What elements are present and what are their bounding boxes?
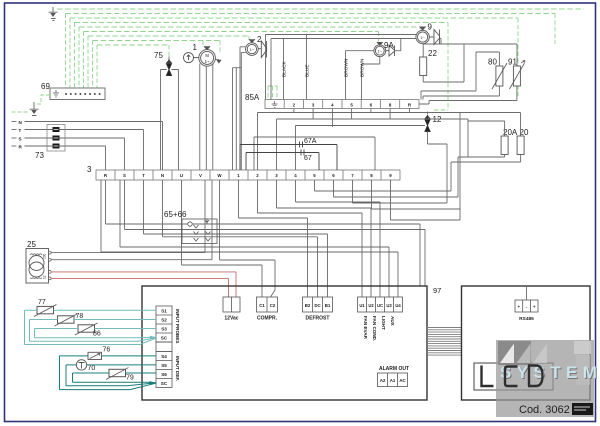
wire switch76 left loop	[60, 356, 157, 390]
resistor 20A	[501, 136, 508, 155]
wire thermostat70 left loop	[66, 365, 154, 386]
wire fan2 left lead	[240, 47, 246, 170]
green link bar69 to ground G2	[36, 95, 50, 104]
svg-text:B1: B1	[325, 303, 331, 308]
thermostat 70	[76, 360, 86, 370]
wire U to C1	[182, 180, 263, 297]
wire fan9 prop to resistor 22 bus	[423, 38, 517, 44]
evaporator fan 2	[246, 39, 267, 57]
wire cell8 to right riser	[372, 180, 461, 209]
svg-text:A2: A2	[380, 378, 386, 383]
wire valve75 left lead	[161, 70, 167, 171]
probe 91	[510, 61, 526, 90]
svg-text:S1: S1	[161, 309, 167, 314]
ground stub motor 1	[215, 60, 221, 64]
condenser fan 9	[416, 27, 440, 45]
svg-text:77: 77	[38, 299, 46, 306]
svg-text:N: N	[19, 120, 23, 125]
svg-text:INPUT DEF.: INPUT DEF.	[175, 356, 180, 381]
svg-text:78: 78	[76, 313, 84, 320]
fuse 67A	[240, 142, 337, 171]
wire motor1 phase leads	[200, 64, 213, 171]
wire probe79 left loop	[73, 373, 157, 383]
svg-text:A1: A1	[390, 378, 396, 383]
terminal RS485	[515, 300, 538, 312]
terminal 12Vac	[223, 297, 240, 312]
wire 2 to U1	[258, 180, 363, 297]
svg-text:20A: 20A	[503, 128, 518, 137]
probe 79	[106, 368, 129, 380]
svg-text:SC: SC	[161, 381, 168, 386]
svg-text:73: 73	[35, 151, 44, 160]
svg-text:RS485: RS485	[519, 316, 534, 322]
svg-text:-: -	[526, 305, 528, 311]
resistor 20	[517, 136, 524, 155]
wire probe78 left loop	[30, 320, 157, 342]
svg-text:1~: 1~	[250, 47, 255, 52]
wire fan9 left lead into h35	[266, 35, 417, 100]
terminal strip 3	[96, 170, 400, 180]
wire RS485 stub	[526, 286, 528, 300]
wire 20 bottom	[451, 155, 521, 163]
wire BLACK drop	[283, 39, 285, 100]
wire probe86 to S3	[95, 328, 157, 330]
watermark overlay	[482, 340, 600, 417]
solenoid valve 75	[166, 57, 172, 76]
wire 91 bottom	[419, 86, 517, 104]
svg-text:S4: S4	[161, 354, 167, 359]
wire 4 to UC	[296, 180, 381, 297]
wire probe86 left loop	[35, 329, 157, 338]
svg-text:BLUE: BLUE	[305, 64, 311, 77]
terminal DEFROST B2 DC B1	[303, 297, 333, 312]
mains wire R	[12, 146, 106, 170]
green ground net: staircase horizontals	[57, 9, 584, 45]
solenoid valve 12	[425, 112, 431, 132]
svg-text:22: 22	[428, 49, 437, 58]
svg-text:SC: SC	[161, 336, 168, 341]
svg-text:97: 97	[433, 286, 441, 295]
wire loop 80 top	[421, 52, 499, 100]
svg-text:T: T	[142, 173, 145, 178]
fuse box 73	[47, 125, 65, 152]
svg-text:12Vac: 12Vac	[224, 316, 238, 322]
wire cell9 to right riser	[391, 180, 461, 220]
wire valve12 bottom path	[353, 132, 448, 204]
svg-text:AC: AC	[399, 378, 406, 383]
svg-text:67: 67	[304, 155, 312, 162]
wire bus h119	[277, 109, 469, 171]
svg-text:3: 3	[87, 165, 92, 174]
wire cell6 to 20 loop	[334, 157, 459, 197]
svg-text:1~: 1~	[204, 59, 210, 64]
svg-text:S3: S3	[161, 327, 167, 332]
display unit box	[462, 286, 591, 400]
wire thermostat70 to S5	[87, 364, 156, 366]
svg-text:Cod. 3062: Cod. 3062	[519, 404, 570, 416]
wire fan9A prop stub	[395, 39, 401, 51]
ground symbol G1 top-left	[49, 7, 58, 21]
wire probe77 left loop	[25, 310, 157, 344]
svg-text:75: 75	[154, 51, 163, 60]
svg-text:S2: S2	[161, 318, 167, 323]
terminal FAN U1 U2 UC U3 U4	[358, 297, 403, 312]
svg-text:U4: U4	[395, 303, 401, 308]
wire R phase run through 65+66	[106, 180, 421, 286]
svg-text:1~: 1~	[378, 49, 383, 54]
svg-text:DC: DC	[314, 303, 321, 308]
svg-text:S6: S6	[161, 372, 167, 377]
svg-text:FAN COND.: FAN COND.	[372, 316, 377, 341]
svg-text:80: 80	[488, 58, 497, 67]
svg-text:86: 86	[93, 331, 101, 338]
wire 12V red a	[51, 272, 236, 297]
ground glyph in 85A first cell	[272, 101, 278, 107]
arrow into SC lower	[150, 381, 157, 385]
green ground net: right drops	[169, 14, 555, 111]
LCD module	[474, 363, 553, 390]
wire switch76 to S4	[102, 355, 157, 357]
terminal COMPR C1 C2	[257, 297, 278, 312]
fuse 67	[246, 150, 319, 171]
probe 80	[492, 63, 507, 89]
svg-text:U1: U1	[359, 303, 365, 308]
wire fan9A bottom lead	[362, 57, 380, 100]
svg-text:70: 70	[88, 365, 96, 372]
svg-text:85A: 85A	[245, 93, 260, 102]
probe 78	[55, 314, 78, 326]
mains wire S	[12, 138, 125, 170]
wire 85A cell4 tap	[331, 109, 333, 128]
green stub to left border	[12, 111, 29, 113]
svg-text:S: S	[19, 137, 22, 142]
probe 77	[34, 305, 57, 317]
svg-text:1~: 1~	[420, 35, 425, 40]
wire S phase run through 65+66	[125, 180, 426, 286]
svg-text:R: R	[19, 145, 23, 150]
wire BLUE drop	[306, 35, 308, 100]
arrow into SC upper	[150, 336, 156, 340]
svg-text:B2: B2	[305, 303, 311, 308]
wire 20A bottom	[458, 155, 505, 158]
wire fan9A left lead	[346, 51, 374, 100]
wire loop via 22 bottom	[423, 44, 464, 82]
svg-text:S5: S5	[161, 363, 167, 368]
wire T to B1	[144, 180, 328, 297]
ribbon cable 97 to display	[427, 328, 462, 356]
svg-text:FAN EVAP.: FAN EVAP.	[363, 316, 368, 339]
wire h38.5 bus	[271, 39, 416, 100]
wire trafo 230V a	[51, 180, 205, 253]
mains wire N	[12, 122, 163, 171]
condenser fan 9A	[374, 42, 395, 57]
wire valve75 right lead	[172, 70, 179, 171]
svg-text:+: +	[533, 305, 536, 311]
wire probe79 to S6	[126, 372, 157, 374]
wire 80 bottom	[423, 86, 499, 100]
svg-text:BLACK: BLACK	[282, 60, 288, 77]
wire W to C2	[220, 180, 276, 297]
svg-text:AUX: AUX	[390, 316, 395, 327]
terminal strip 85A	[265, 100, 419, 109]
wire N to DC	[163, 180, 318, 297]
svg-text:U2: U2	[368, 303, 374, 308]
wire staircase h137	[254, 137, 375, 170]
svg-text:N: N	[161, 173, 164, 178]
wire probe77 to S1	[54, 309, 157, 311]
wire 3 to U2	[277, 180, 372, 297]
compressor motor 1	[184, 46, 216, 66]
svg-text:M: M	[205, 53, 209, 58]
wire S aux to U3	[120, 180, 389, 297]
wire valve12 left lead	[296, 126, 425, 171]
transformer 25	[26, 249, 51, 284]
svg-text:C1: C1	[259, 303, 265, 308]
controller box 97	[142, 286, 427, 400]
wire loop 91 top	[516, 44, 518, 66]
terminal ALARM A2 A1 AC	[378, 373, 408, 387]
wire 12V red b	[51, 278, 228, 297]
ground bar 69	[50, 88, 105, 100]
svg-text:+: +	[517, 305, 520, 311]
svg-text:2: 2	[257, 35, 262, 44]
svg-text:UC: UC	[377, 303, 383, 308]
svg-text:S: S	[123, 173, 126, 178]
svg-text:C2: C2	[270, 303, 276, 308]
pressure switch block 65+66	[182, 219, 217, 244]
ground symbol G2	[30, 102, 39, 116]
green ground net: left verticals into bar 69	[66, 14, 98, 89]
svg-text:V: V	[199, 173, 202, 178]
wire 1 to B2	[239, 180, 308, 297]
input terminals S1..SC	[156, 306, 172, 387]
svg-text:LIGHT: LIGHT	[381, 316, 386, 330]
mains wire T	[12, 130, 144, 171]
wire probe78 to S2	[74, 319, 156, 321]
svg-text:COMPR.: COMPR.	[257, 316, 278, 322]
wire cell5 to 20A loop	[315, 162, 452, 191]
svg-text:12: 12	[43, 275, 47, 279]
svg-text:U: U	[180, 173, 183, 178]
resistor 22	[420, 44, 427, 76]
svg-text:230: 230	[43, 253, 47, 259]
svg-text:9: 9	[428, 23, 433, 32]
wire 20A top	[468, 121, 505, 136]
wire trafo 230V b	[51, 180, 212, 260]
svg-text:T: T	[19, 128, 22, 133]
wire fan2 lower lead	[233, 52, 246, 170]
svg-text:1: 1	[193, 43, 198, 52]
svg-text:67A: 67A	[304, 138, 317, 145]
wire R aux to U4	[101, 180, 398, 297]
svg-text:25: 25	[27, 240, 36, 249]
svg-text:U3: U3	[386, 303, 392, 308]
svg-text:BROWN: BROWN	[344, 58, 350, 77]
svg-text:DEFROST: DEFROST	[306, 316, 330, 322]
svg-text:9A: 9A	[384, 41, 394, 50]
defrost switch 76	[88, 352, 102, 359]
svg-text:79: 79	[126, 375, 134, 382]
wire bus h112	[258, 109, 521, 221]
svg-text:91: 91	[508, 58, 517, 67]
probe 86	[75, 323, 98, 335]
svg-text:ALARM OUT: ALARM OUT	[379, 366, 409, 372]
svg-text:12: 12	[433, 115, 442, 124]
svg-text:INPUT PROBES: INPUT PROBES	[175, 309, 180, 343]
svg-text:BROWN: BROWN	[360, 58, 366, 77]
svg-text:69: 69	[41, 82, 50, 91]
svg-text:65+66: 65+66	[164, 210, 187, 219]
svg-text:76: 76	[103, 347, 111, 354]
